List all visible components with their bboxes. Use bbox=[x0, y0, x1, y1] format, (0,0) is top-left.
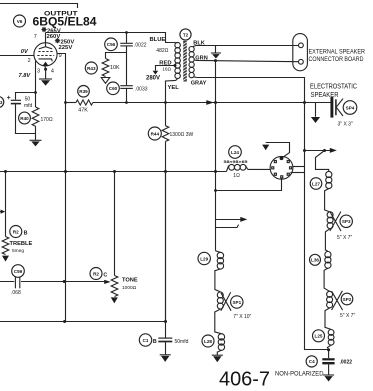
arrow on bus into node bbox=[206, 100, 214, 105]
tube plate bbox=[39, 47, 52, 49]
svg-text:C59: C59 bbox=[14, 269, 23, 274]
op amp: none / tube V6 6BQ5 envelope bbox=[34, 43, 57, 66]
arrow socket feed bbox=[262, 145, 269, 151]
wire R44 down bbox=[165, 141, 167, 321]
svg-text:7: 7 bbox=[34, 34, 37, 40]
label circle C3 (cut at edge) bbox=[0, 96, 4, 107]
ground cathode network bbox=[30, 140, 42, 146]
svg-text:R43: R43 bbox=[87, 66, 96, 71]
node GRAY bus bbox=[303, 101, 306, 104]
svg-text:L27: L27 bbox=[312, 181, 320, 186]
speaker socket bbox=[270, 156, 293, 179]
node GRN stub bus bbox=[214, 101, 217, 104]
wire C1B to ground bbox=[165, 342, 167, 355]
wire L27 feed arrow bbox=[305, 150, 331, 152]
resistor R40 bbox=[32, 107, 39, 126]
label circle R39 bbox=[78, 86, 90, 98]
node YEL bus bbox=[164, 101, 167, 104]
wire L27 to SP3 bbox=[325, 189, 330, 212]
svg-text:mfd: mfd bbox=[24, 103, 33, 109]
capacitor C4 (non-polarized) bbox=[322, 358, 334, 364]
wire plug tap to L27 bbox=[316, 151, 329, 172]
speaker SP3 cone bbox=[330, 212, 341, 232]
socket top pin (filled) bbox=[280, 156, 284, 160]
wire C60 bottom lead bbox=[126, 89, 128, 103]
svg-text:16Ω: 16Ω bbox=[162, 67, 171, 72]
wire plate to transformer (BLUE) bbox=[46, 33, 176, 43]
node C4 top bbox=[327, 348, 330, 351]
node center tap bbox=[174, 64, 177, 67]
resistor R39 47K bbox=[76, 100, 93, 105]
svg-text:T2: T2 bbox=[183, 32, 189, 37]
wire bus y102 mid bbox=[93, 102, 331, 104]
wire L29 to SP1 bbox=[215, 269, 221, 292]
wire 10K branch bbox=[106, 53, 127, 59]
wire plate lead bbox=[45, 33, 47, 48]
speaker SP3 coil bbox=[327, 212, 333, 229]
svg-text:5" X 7": 5" X 7" bbox=[337, 235, 352, 241]
svg-text:B: B bbox=[153, 339, 157, 345]
svg-text:L24: L24 bbox=[231, 150, 239, 155]
node y322 C1B bbox=[164, 320, 167, 323]
svg-text:R44: R44 bbox=[151, 131, 160, 136]
svg-text:5meg: 5meg bbox=[12, 248, 24, 254]
svg-text:4: 4 bbox=[51, 68, 54, 74]
label circle R2 C bbox=[90, 268, 102, 280]
transformer T2 secondary coil bbox=[189, 47, 194, 78]
node pins 3-4 junction bbox=[44, 68, 47, 71]
ground C4 bbox=[323, 375, 334, 382]
node L27 feed bbox=[303, 149, 306, 152]
node plug tap bbox=[323, 149, 326, 152]
svg-text:170Ω: 170Ω bbox=[41, 117, 53, 123]
transformer T2 primary coil bbox=[175, 42, 181, 80]
svg-text:SPEAKER: SPEAKER bbox=[311, 92, 339, 99]
wire L25 to C4 node bbox=[327, 345, 331, 349]
wire T2 center tap 280V bbox=[156, 66, 176, 71]
svg-text:1300Ω 3W: 1300Ω 3W bbox=[170, 132, 194, 138]
svg-text:47K: 47K bbox=[78, 107, 88, 113]
wire cathode down bbox=[35, 61, 37, 107]
transformer T2 core bbox=[183, 41, 187, 82]
svg-text:TREBLE: TREBLE bbox=[10, 241, 33, 247]
node R44 bus y172 bbox=[164, 170, 167, 173]
label circle C4 bbox=[306, 356, 317, 367]
svg-text:225V: 225V bbox=[59, 45, 73, 51]
svg-text:482Ω: 482Ω bbox=[156, 48, 168, 54]
label circle L27 bbox=[310, 178, 322, 190]
ground electrostatic bbox=[311, 103, 320, 124]
svg-text:SP2: SP2 bbox=[343, 297, 352, 302]
label circle C60 bbox=[107, 82, 120, 95]
wire SP1 to L28 bbox=[215, 309, 222, 334]
node treble top bbox=[4, 170, 7, 173]
svg-text:58×98×65: 58×98×65 bbox=[224, 160, 248, 164]
wiper treble bbox=[0, 210, 5, 214]
transformer T2 label bbox=[180, 29, 191, 40]
svg-text:B: B bbox=[24, 230, 28, 236]
label circle SP3 bbox=[340, 215, 352, 227]
node y282 screen bus bbox=[63, 280, 66, 283]
potentiometer R2B treble: body bbox=[5, 172, 7, 237]
node .0033 bottom bbox=[125, 101, 128, 104]
ground BLK stub bbox=[211, 45, 221, 58]
label circle C56 bbox=[105, 38, 118, 51]
inductor L29 bbox=[216, 251, 221, 253]
svg-text:NON-POLARIZED: NON-POLARIZED bbox=[275, 371, 324, 378]
svg-text:406-7: 406-7 bbox=[219, 368, 270, 391]
inductor L24 bbox=[226, 164, 247, 171]
svg-text:3" X 3": 3" X 3" bbox=[338, 122, 353, 128]
speaker SP2 cone bbox=[332, 291, 343, 310]
label circle L36 bbox=[310, 254, 321, 265]
svg-text:1000Ω: 1000Ω bbox=[122, 285, 137, 291]
wire GRN bbox=[194, 60, 299, 62]
wire right bus vertical bbox=[305, 103, 329, 350]
wire bus y172 bbox=[0, 171, 226, 173]
wire socket right pin to right bus bbox=[293, 166, 305, 168]
connector board (stadium) bbox=[293, 34, 308, 71]
label circle SP1 bbox=[231, 296, 243, 308]
wire L28 to ground bbox=[217, 350, 221, 355]
node BLUE cap junction bbox=[125, 31, 128, 34]
label circle R43 bbox=[85, 62, 97, 74]
svg-text:1Ω: 1Ω bbox=[233, 173, 240, 179]
arrow plug mid bbox=[240, 217, 247, 222]
svg-text:3: 3 bbox=[37, 68, 40, 74]
resistor element R2B bbox=[2, 237, 9, 255]
svg-text:R2: R2 bbox=[93, 271, 99, 276]
socket pins bbox=[272, 161, 292, 178]
wire top bus bbox=[0, 4, 78, 9]
svg-text:SP1: SP1 bbox=[232, 300, 241, 305]
potentiometer R2C tone: body bbox=[114, 172, 116, 276]
svg-text:L36: L36 bbox=[311, 258, 319, 263]
svg-text:SP3: SP3 bbox=[342, 219, 351, 224]
svg-text:C4: C4 bbox=[309, 359, 315, 364]
electrostatic speaker SP4 plates bbox=[332, 97, 343, 118]
wire C56 top lead bbox=[126, 33, 128, 43]
label circle L28 bbox=[202, 335, 214, 347]
svg-text:TONE: TONE bbox=[122, 278, 138, 284]
svg-text:C56: C56 bbox=[107, 42, 116, 47]
wire grid 0V bbox=[0, 55, 34, 57]
label circle R2 B bbox=[10, 226, 22, 238]
svg-text:C60: C60 bbox=[109, 86, 118, 91]
resistor R43 10K bbox=[102, 59, 109, 77]
capacitor C59 .068 bbox=[15, 276, 19, 288]
svg-text:L29: L29 bbox=[200, 256, 208, 261]
capacitor C60 .0033 bbox=[120, 86, 133, 89]
svg-text:L28: L28 bbox=[204, 339, 212, 344]
svg-text:0V: 0V bbox=[21, 49, 29, 55]
wire L24 to socket bbox=[248, 168, 271, 170]
svg-text:YEL: YEL bbox=[168, 85, 180, 91]
wire cap branch bbox=[16, 93, 36, 100]
wire C4 top lead bbox=[328, 350, 330, 358]
capacitor C1B 50mfd bbox=[158, 338, 172, 341]
wire socket top feed bbox=[266, 143, 290, 158]
svg-text:C1: C1 bbox=[143, 338, 149, 343]
svg-text:.068: .068 bbox=[11, 290, 21, 296]
wire C4 to ground bbox=[328, 364, 330, 374]
svg-text:.0022: .0022 bbox=[340, 360, 353, 366]
label circle L24 bbox=[229, 146, 242, 159]
tube grid g1 (dashed) bbox=[38, 51, 53, 53]
ground below tube bbox=[39, 79, 52, 86]
label circle C1 bbox=[139, 334, 151, 346]
svg-text:CONNECTOR BOARD: CONNECTOR BOARD bbox=[309, 56, 364, 63]
wire GRN stub down bbox=[215, 61, 217, 251]
resistor element R2C bbox=[111, 276, 118, 297]
node tone top bbox=[113, 170, 116, 173]
node star 265V bbox=[41, 27, 46, 32]
ground C1B bbox=[160, 355, 171, 362]
svg-text:50mfd: 50mfd bbox=[175, 339, 189, 345]
wire socket lower-right pin to right bus bbox=[290, 172, 304, 174]
speaker SP1 cone bbox=[221, 292, 231, 311]
svg-text:R40: R40 bbox=[20, 116, 29, 121]
inductor L25 bbox=[328, 330, 334, 346]
svg-text:7" X 10": 7" X 10" bbox=[233, 314, 251, 320]
resistor R44 1300ohm bbox=[162, 126, 169, 142]
svg-text:BLK: BLK bbox=[193, 41, 205, 47]
svg-text:EXTERNAL SPEAKER: EXTERNAL SPEAKER bbox=[309, 49, 366, 56]
svg-text:6BQ5/EL84: 6BQ5/EL84 bbox=[33, 15, 97, 29]
wire socket bottom pin down bbox=[216, 178, 282, 191]
arrow treble bottom bbox=[2, 256, 9, 262]
wire bus y322 bbox=[0, 321, 166, 323]
svg-text:R2: R2 bbox=[13, 229, 19, 234]
svg-text:7.8V: 7.8V bbox=[19, 73, 32, 79]
label circle L25 bbox=[313, 330, 325, 342]
label circle SP4 bbox=[343, 101, 357, 115]
wire plug stub lower bbox=[216, 225, 239, 228]
svg-text:ELECTROSTATIC: ELECTROSTATIC bbox=[310, 84, 357, 91]
label circle SP2 bbox=[341, 293, 353, 305]
label circle R44 bbox=[148, 127, 161, 140]
tube cathode bbox=[39, 59, 53, 61]
wire GRAY bbox=[193, 77, 304, 103]
label circle R40 bbox=[19, 112, 31, 124]
svg-text:L25: L25 bbox=[315, 334, 323, 339]
speaker SP2 coil bbox=[327, 291, 333, 308]
svg-text:V6: V6 bbox=[17, 19, 23, 24]
svg-text:BLUE: BLUE bbox=[150, 37, 166, 43]
tube label V6 bbox=[14, 15, 26, 27]
wire C1B top lead bbox=[165, 172, 167, 338]
wire SP3 to L36 bbox=[325, 229, 330, 252]
node screen bus y172 bbox=[64, 170, 67, 173]
svg-text:.0033: .0033 bbox=[135, 87, 148, 93]
wire L36 to SP2 bbox=[324, 268, 329, 291]
svg-text:5" X 7": 5" X 7" bbox=[340, 313, 355, 319]
inductor L27 bbox=[326, 171, 332, 188]
capacitor C3 50mfd bbox=[7, 96, 21, 104]
speaker SP1 coil bbox=[217, 292, 223, 309]
svg-text:SP4: SP4 bbox=[346, 105, 355, 110]
svg-text:2: 2 bbox=[28, 58, 31, 64]
svg-text:50: 50 bbox=[25, 96, 31, 102]
arrow tone bottom bbox=[111, 297, 118, 303]
ground L28 bbox=[212, 355, 223, 362]
label circle C59 bbox=[12, 265, 25, 278]
svg-text:280V: 280V bbox=[146, 76, 160, 82]
node GRN tap bbox=[214, 59, 217, 62]
arrow tone wiper bbox=[104, 280, 110, 284]
ground 10K (open) bbox=[101, 78, 110, 84]
wire BLK bbox=[193, 46, 299, 47]
node cathode RC top bbox=[34, 91, 37, 94]
wire YEL lead bbox=[166, 80, 176, 125]
node speaker return y172 bbox=[214, 170, 217, 173]
wire speaker return / plug arrows bbox=[216, 219, 242, 221]
arrow plug right bbox=[330, 148, 337, 153]
tube grid g2 (dashed) bbox=[37, 55, 54, 57]
node speaker return y190 bbox=[214, 189, 217, 192]
node star 250V bbox=[55, 38, 60, 43]
wire SP2 to L25 bbox=[325, 308, 331, 330]
svg-text:C: C bbox=[103, 272, 107, 278]
wire bus y102 left bbox=[66, 102, 77, 104]
svg-text:3: 3 bbox=[0, 100, 3, 105]
tube heater arrow bbox=[43, 62, 49, 66]
inductor L28 bbox=[218, 334, 224, 351]
arrow 280V feed bbox=[153, 71, 159, 75]
wire R40 to ground bbox=[35, 126, 37, 140]
wire pin9 screen bbox=[58, 54, 66, 323]
svg-text:.0022: .0022 bbox=[134, 42, 147, 48]
capacitor C56 .0022 bbox=[120, 43, 133, 46]
label circle L29 bbox=[198, 252, 210, 264]
wire cap bottom bbox=[16, 104, 36, 134]
node screen/47K bbox=[64, 101, 67, 104]
wire bus y282 (.068 line) bbox=[0, 281, 105, 283]
wire C56 to C60 bbox=[126, 46, 128, 85]
svg-text:R39: R39 bbox=[79, 89, 88, 94]
svg-text:10K: 10K bbox=[110, 65, 120, 71]
connector terminal top bbox=[299, 43, 304, 48]
connector terminal bottom bbox=[299, 59, 304, 64]
svg-text:GRAY: GRAY bbox=[191, 81, 207, 87]
node y322 screen bus bbox=[63, 320, 66, 323]
svg-text:GRN: GRN bbox=[195, 55, 207, 61]
wire pin4 to ground bbox=[44, 66, 47, 79]
inductor L36 bbox=[325, 252, 331, 269]
